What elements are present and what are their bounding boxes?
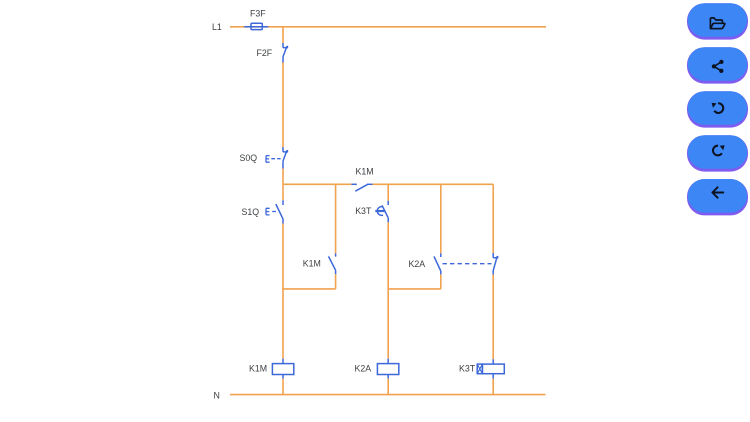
contact K2A linked (NC, vertical) (493, 253, 498, 274)
svg-text:F3F: F3F (250, 9, 266, 19)
wire main drop S1Q to coil K1M (282, 224, 284, 359)
contact K1M aux (NO, vertical) (329, 254, 336, 275)
wire junction connector right (388, 288, 441, 290)
wire K1M aux branch drop (335, 184, 337, 253)
wire junction connector left (282, 288, 335, 290)
contact K2A (NO, vertical) (434, 253, 441, 274)
contact K1M (NO, horizontal, in branch rail) (351, 184, 372, 191)
svg-text:L1: L1 (212, 22, 222, 32)
svg-text:K3T: K3T (355, 206, 372, 216)
fuse F3F (244, 23, 268, 29)
wire main drop node A to S1Q (282, 184, 284, 200)
mechanical link dashed K2A to K3T NC (443, 263, 492, 265)
wire L1 top rail (230, 26, 546, 28)
wire K3T branch to coil K2A (387, 222, 389, 358)
coil K3T (timer coil) (477, 359, 504, 379)
wire K2A contact branch drop (440, 184, 442, 253)
wire main drop F2F to S0Q (282, 63, 284, 148)
svg-text:S1Q: S1Q (242, 207, 260, 217)
button back (687, 179, 748, 215)
svg-text:K1M: K1M (249, 364, 267, 374)
wire coil K3T to N (492, 379, 494, 395)
svg-text:K1M: K1M (356, 167, 374, 177)
svg-text:F2F: F2F (257, 48, 273, 58)
wire coil K1M to N (282, 379, 284, 395)
wire K1M aux branch to junction (335, 274, 337, 289)
wire main drop upper (282, 27, 284, 43)
svg-text:S0Q: S0Q (240, 153, 258, 163)
coil K1M (272, 359, 293, 379)
button share (687, 47, 748, 83)
svg-text:K2A: K2A (355, 364, 372, 374)
wire K3T branch drop upper (387, 184, 389, 201)
wire right branch drop upper (492, 184, 494, 253)
wire right branch to coil K3T (492, 275, 494, 360)
coil K2A (377, 359, 398, 379)
contact K3T (NO, on-delay timer) (375, 201, 388, 223)
wire coil K2A to N (387, 379, 389, 395)
button redo (687, 135, 748, 171)
pushbutton S1Q (NO, E actuator) (266, 200, 283, 223)
button open-file (687, 3, 748, 39)
wire branch rail right segment (373, 183, 494, 185)
pushbutton S0Q (NC, E actuator) (266, 147, 287, 168)
svg-text:N: N (214, 390, 220, 400)
wire branch rail left segment (283, 183, 351, 185)
svg-text:K1M: K1M (303, 259, 321, 269)
wire N bottom rail (230, 394, 546, 396)
wire K2A contact branch to junction (440, 274, 442, 289)
contact F2F (NC) (283, 43, 288, 63)
svg-text:K3T: K3T (459, 364, 476, 374)
wire main drop S0Q to node A (282, 169, 284, 185)
svg-text:K2A: K2A (409, 259, 426, 269)
button undo (687, 91, 748, 127)
